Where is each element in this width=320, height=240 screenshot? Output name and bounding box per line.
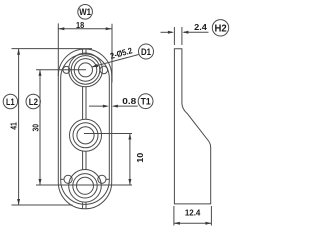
balloon T1 circle [138, 94, 153, 109]
bottom hole [77, 177, 94, 194]
top hole [79, 63, 93, 77]
arrow 41 bottom [17, 199, 20, 205]
balloon L1 circle [3, 94, 17, 108]
dimension 2.4 left arrow line [161, 31, 173, 33]
dimension 30 line [39, 70, 41, 185]
arrow D1 leader [91, 64, 98, 67]
arrow 18 right [106, 27, 112, 30]
rib line upper web [83, 87, 86, 120]
dimension 41 bottom extension [12, 204, 73, 206]
bottom right ear connector [106, 178, 109, 180]
bottom hole boss [69, 170, 102, 203]
dimension 0.8 left arrow line [89, 105, 107, 107]
front view outer contour [58, 49, 111, 209]
top hole boss inner ring [71, 56, 100, 85]
svg-text:D1: D1 [141, 47, 151, 57]
middle hole [77, 127, 94, 144]
balloon H2 circle [212, 20, 228, 36]
arrow 10 top [128, 134, 131, 140]
bottom boss left ear [64, 175, 72, 183]
svg-text:41: 41 [8, 122, 18, 130]
dimension 12.4 line [174, 222, 212, 224]
svg-text:2-Ø5.2: 2-Ø5.2 [109, 45, 134, 61]
top hole boss [69, 53, 103, 87]
arrow 2.4 right [182, 31, 188, 34]
svg-text:T1: T1 [141, 97, 151, 107]
top boss left ear [63, 66, 70, 73]
arrow 41 top [17, 49, 20, 55]
side view outline [174, 49, 210, 204]
centerline top hole [36, 69, 86, 71]
dimension 10 line [129, 134, 131, 186]
arrow 18 left [58, 27, 64, 30]
dimension 2.4 right leader line [184, 31, 209, 33]
svg-text:0.8: 0.8 [122, 96, 136, 106]
dimension 18 line [58, 28, 111, 30]
dimension 12.4 right extension [210, 206, 212, 226]
arrow 12.4 right [205, 222, 211, 225]
arrow 12.4 left [174, 222, 180, 225]
svg-text:12.4: 12.4 [185, 208, 201, 218]
middle hole ring [73, 123, 98, 148]
dimension 0.8 right leader line [114, 105, 138, 107]
dimension 2.4 left extension [173, 27, 175, 45]
centerline bottom hole [36, 184, 132, 186]
svg-text:W1: W1 [79, 7, 91, 17]
arrow 2.4 left [168, 31, 174, 34]
dimension 18 left extension [57, 23, 59, 76]
rib line bottom [83, 202, 86, 208]
svg-text:L1: L1 [6, 97, 15, 107]
top hole counterbore [74, 59, 97, 82]
rib line top [83, 49, 86, 55]
dimension 41 line [18, 49, 20, 205]
arrow 0.8 right [112, 105, 118, 108]
balloon W1 circle [78, 5, 93, 20]
dimension 41 top extension [12, 48, 93, 50]
arrow 30 top [39, 70, 42, 76]
dimension 12.4 left extension [173, 206, 175, 226]
svg-text:30: 30 [30, 124, 40, 132]
bottom left ear connector [61, 178, 64, 180]
svg-text:10: 10 [135, 152, 145, 162]
svg-text:L2: L2 [29, 97, 38, 107]
arrow 0.8 left [103, 105, 109, 108]
bottom boss right ear [98, 175, 106, 183]
middle hole outer [70, 119, 102, 151]
front view inner contour [61, 54, 110, 204]
arrow 10 bottom [128, 179, 131, 185]
balloon D1 circle [139, 44, 154, 59]
leader D1 [93, 55, 139, 67]
dimension 2.4 right extension [181, 27, 183, 45]
svg-text:18: 18 [76, 20, 84, 30]
svg-text:H2: H2 [215, 23, 227, 35]
dimension 18 right extension [111, 24, 113, 83]
arrow 30 bottom [39, 179, 42, 185]
centerline middle hole [84, 133, 132, 135]
balloon L2 circle [26, 94, 40, 108]
rib line lower web [83, 151, 86, 169]
svg-text:2.4: 2.4 [194, 22, 207, 32]
top boss right ear [100, 66, 108, 74]
bottom hole ring [73, 174, 97, 198]
